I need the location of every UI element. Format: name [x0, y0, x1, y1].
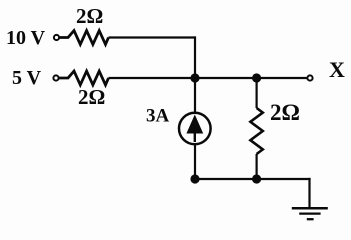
wire 10V row, resistor to corner: [109, 36, 197, 38]
resistor R1 2Ω (top row): [60, 31, 109, 45]
svg-text:3A: 3A: [146, 106, 170, 127]
resistor R3 2Ω (vertical): [250, 78, 262, 179]
terminal 10 V: [54, 35, 59, 40]
junction bottom rail under B: [252, 174, 261, 183]
wire bottom rail: [195, 178, 311, 180]
svg-text:2Ω: 2Ω: [76, 4, 103, 28]
svg-text:5 V: 5 V: [12, 67, 42, 89]
terminal 5 V: [53, 75, 58, 80]
wire node A down to current source: [194, 78, 196, 113]
junction node B (resistor top): [252, 73, 261, 82]
wire current source to bottom rail: [194, 144, 196, 179]
svg-text:2Ω: 2Ω: [270, 100, 300, 125]
current source 3A (circle with up arrow): [179, 113, 211, 145]
wire bottom rail corner down to ground: [308, 178, 310, 208]
junction node A (current-source top): [190, 73, 199, 82]
svg-text:X: X: [329, 57, 345, 82]
resistor R2 2Ω (second row): [59, 71, 108, 85]
ground: [292, 208, 328, 219]
wire 5V row, resistor to terminal X: [109, 77, 307, 79]
junction bottom rail under A: [190, 174, 199, 183]
terminal X: [307, 75, 312, 80]
svg-text:2Ω: 2Ω: [78, 85, 105, 109]
wire corner down to node A: [194, 36, 196, 78]
svg-text:10 V: 10 V: [6, 27, 46, 49]
